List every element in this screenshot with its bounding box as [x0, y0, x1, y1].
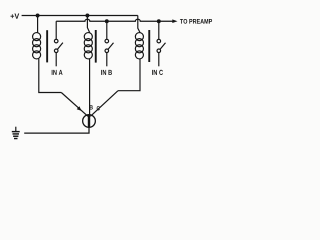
- core bar of coil B: [95, 30, 97, 63]
- preamp bus with hops over coil-B and coil-C drops: [56, 19, 173, 21]
- core bar of coil C: [148, 30, 150, 62]
- core bar of coil A: [46, 30, 48, 62]
- transistor Q1 case circle: [83, 115, 96, 128]
- emitter arrowhead (points into base bar): [77, 106, 82, 111]
- wire +V rail: [22, 15, 138, 17]
- switch S-A lever: [58, 43, 63, 50]
- wire coil B bottom to transistor base: [89, 59, 91, 115]
- wire diagonal from IN C branch to transistor collector: [90, 91, 118, 117]
- switch S-C lever: [160, 43, 165, 50]
- junction dot switch C / bus: [157, 19, 161, 23]
- node IN B label: [101, 70, 112, 75]
- switch S-C bottom contact: [157, 49, 161, 53]
- wire switch B bottom stub (input terminal): [106, 53, 108, 67]
- node IN C label: [152, 70, 163, 75]
- ground symbol: [12, 127, 20, 140]
- inductor coil L-C: [135, 33, 143, 59]
- wire coil A bottom to corner: [39, 59, 62, 93]
- wire riser switch A to preamp bus: [55, 21, 57, 39]
- transistor Q1 base bar: [88, 115, 90, 128]
- wire riser switch B to bus: [106, 21, 108, 39]
- inductor coil L-A: [33, 33, 41, 59]
- wire drop from +V rail to coil B: [87, 16, 89, 33]
- arrowhead to preamp: [172, 19, 177, 23]
- node TO PREAMP label: [180, 19, 212, 24]
- wire transistor to ground rail: [24, 128, 89, 134]
- inductor coil L-B: [84, 33, 92, 59]
- switch S-A bottom contact: [54, 49, 58, 53]
- switch S-B lever: [108, 43, 113, 50]
- transistor base label B: [90, 105, 93, 109]
- transistor collector label C: [97, 106, 100, 110]
- wire switch A bottom stub (input terminal): [55, 53, 57, 67]
- wire coil C bottom to corner: [118, 59, 140, 91]
- wire switch C bottom stub (input terminal): [158, 53, 160, 67]
- node +V label: [11, 13, 20, 18]
- switch S-B bottom contact: [105, 49, 109, 53]
- junction dot coil A / +V rail: [36, 14, 40, 18]
- switch S-C top contact: [157, 39, 161, 43]
- junction dot coil B / +V rail: [85, 14, 89, 18]
- junction dot switch B / bus: [105, 19, 109, 23]
- wire riser switch C to bus: [158, 21, 160, 39]
- wire +V rail drop to coil C (crosses preamp bus, no connection): [138, 16, 140, 33]
- node IN A label: [52, 70, 63, 75]
- wire diagonal from IN A branch to transistor emitter: [61, 93, 88, 117]
- switch S-B top contact: [105, 39, 109, 43]
- wire drop from +V rail to coil A: [37, 16, 39, 33]
- switch S-A top contact: [54, 39, 58, 43]
